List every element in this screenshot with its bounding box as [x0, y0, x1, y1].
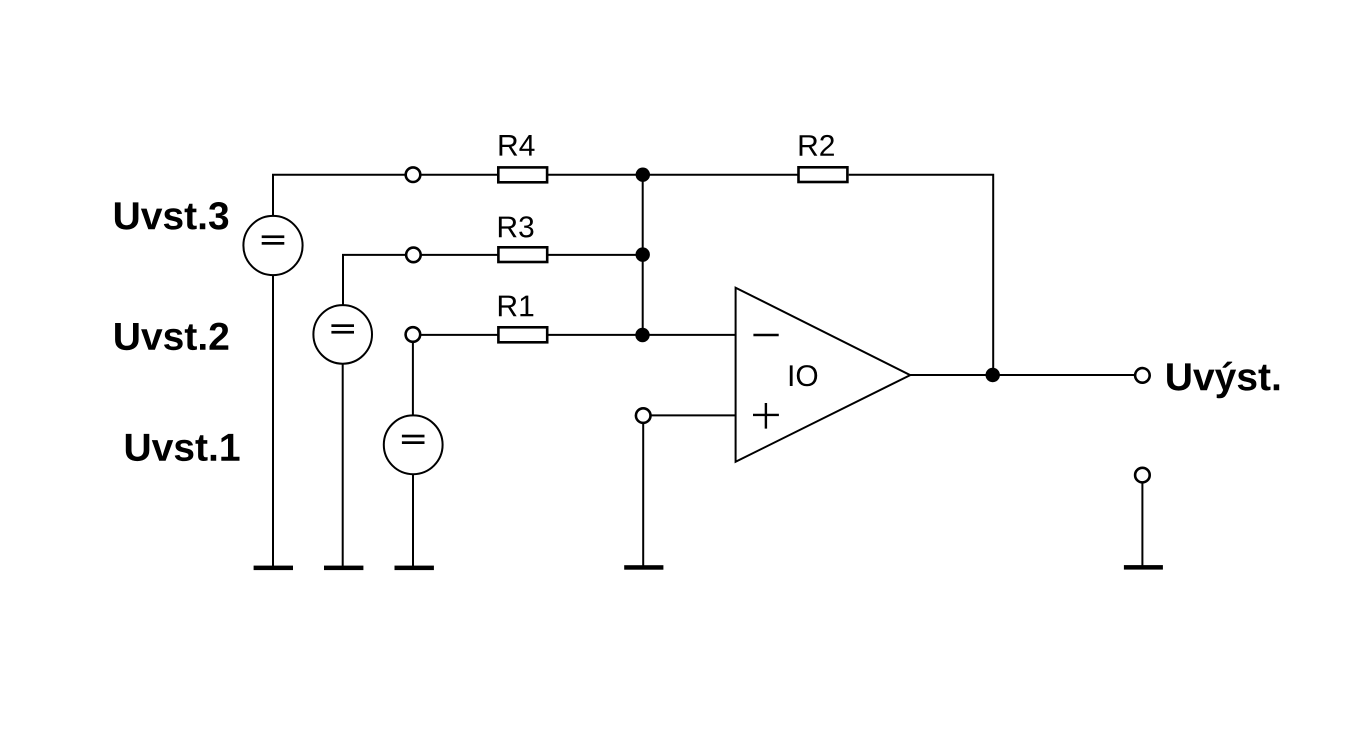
= symbol inside Uvst.1	[402, 435, 425, 444]
ground (Uvst.2)	[324, 566, 363, 571]
wire R4 to junction	[548, 174, 643, 176]
label R2	[800, 135, 834, 156]
label R3	[499, 216, 534, 237]
wire source Uvst.3 to ground	[272, 275, 274, 566]
resistor R3	[498, 247, 547, 262]
wire reference terminal to ground	[1141, 483, 1143, 566]
wire terminal to op-amp non-inverting input	[651, 414, 736, 416]
wire top horizontal from corner to R4 terminal	[273, 175, 406, 216]
wire op-amp output	[910, 374, 993, 376]
wire R1 terminal down to Uvst.1	[412, 342, 414, 416]
junction node (inverting input net)	[635, 328, 649, 342]
wire R3 to junction	[548, 254, 643, 256]
label Uvst.3	[115, 202, 228, 230]
resistor R2	[799, 167, 848, 182]
label Uvst.2	[115, 323, 228, 351]
ground (Uvst.1)	[395, 566, 434, 571]
terminal (open circle) on R3 input	[406, 248, 421, 263]
ground (Uvst.3)	[254, 566, 293, 571]
wire terminal to R1	[421, 334, 498, 336]
terminal (open circle) output Uvyst	[1135, 368, 1150, 383]
wire summing junction vertical	[642, 175, 644, 335]
voltage source Uvst.1	[384, 415, 443, 474]
op-amp minus symbol	[753, 334, 778, 337]
wire R1 to junction	[548, 334, 643, 336]
wire junction to R2	[643, 174, 798, 176]
wire output to terminal	[993, 374, 1135, 376]
wire non-inverting terminal to ground	[642, 423, 644, 566]
terminal (open circle) on non-inverting input	[636, 408, 651, 423]
wire junction to op-amp inverting input	[643, 334, 736, 336]
wire source Uvst.2 to ground	[342, 364, 344, 566]
op-amp IO triangle	[736, 288, 911, 462]
wire source Uvst.1 to ground	[412, 474, 414, 566]
label Uvst.1	[126, 434, 240, 461]
terminal (open circle) reference ground	[1135, 468, 1150, 483]
wire terminal to R4	[421, 174, 498, 176]
ground (reference)	[1124, 565, 1163, 570]
op-amp plus symbol	[753, 403, 779, 429]
wire R3 branch: corner from Uvst.2 top to terminal	[343, 255, 406, 305]
wire terminal to R3	[421, 254, 498, 256]
wire R2 to feedback corner and down to output node	[849, 175, 994, 375]
label R1	[499, 296, 533, 317]
= symbol inside Uvst.2	[331, 324, 354, 333]
ground (non-inverting input)	[624, 565, 663, 570]
terminal (open circle) on R4 input	[406, 167, 421, 182]
= symbol inside Uvst.3	[262, 235, 285, 244]
junction node (output)	[986, 368, 1000, 382]
voltage source Uvst.3	[243, 216, 302, 275]
resistor R1	[498, 327, 547, 342]
resistor R4	[498, 167, 547, 182]
terminal (open circle) on R1 input	[406, 327, 421, 342]
label R4	[500, 135, 535, 156]
label Uvyst output	[1167, 362, 1279, 399]
label IO (op-amp designator)	[790, 365, 817, 386]
voltage source Uvst.2	[313, 305, 372, 364]
junction node (R3 net)	[636, 247, 650, 261]
junction node (R4/R2 net)	[636, 168, 650, 182]
